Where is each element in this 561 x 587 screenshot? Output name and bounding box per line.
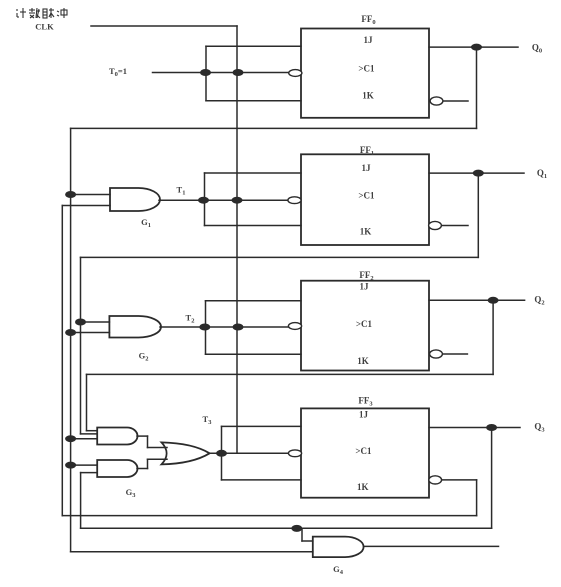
svg-text:1K: 1K: [362, 91, 374, 101]
svg-text:>C1: >C1: [358, 64, 375, 74]
svg-text:1J: 1J: [362, 163, 372, 173]
svg-text:1J: 1J: [360, 282, 370, 292]
svg-text:1K: 1K: [360, 227, 372, 237]
svg-text:1J: 1J: [359, 410, 369, 420]
svg-text:1K: 1K: [357, 482, 369, 492]
svg-text:>C1: >C1: [356, 319, 373, 329]
svg-text:CLK: CLK: [35, 22, 54, 32]
svg-text:1J: 1J: [364, 35, 374, 45]
svg-text:1K: 1K: [357, 356, 369, 366]
svg-text:>C1: >C1: [355, 446, 372, 456]
svg-text:>C1: >C1: [358, 191, 375, 201]
